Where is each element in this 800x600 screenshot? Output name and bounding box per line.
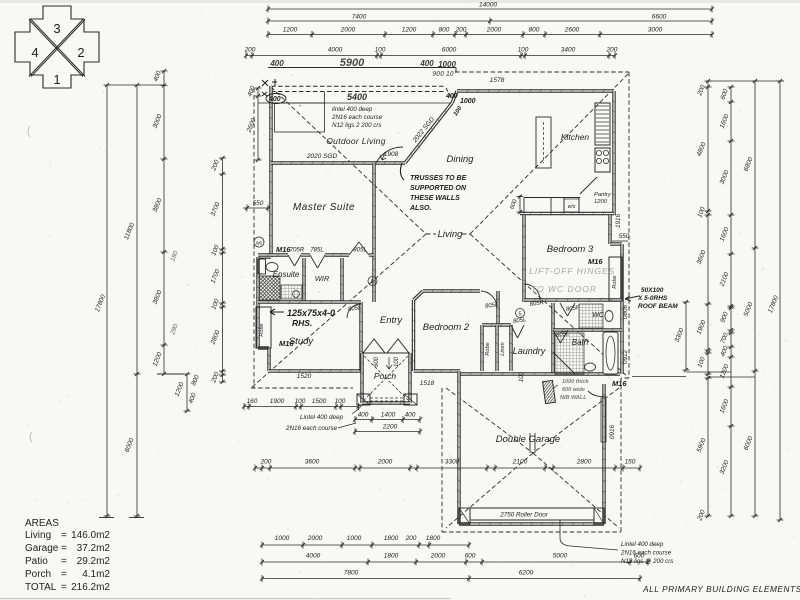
svg-text:2800: 2800 (576, 459, 592, 466)
svg-text:900 10: 900 10 (432, 71, 454, 78)
svg-text:0912: 0912 (622, 350, 629, 365)
svg-text:ALL PRIMARY BUILDING ELEMENTS: ALL PRIMARY BUILDING ELEMENTS (642, 584, 800, 594)
svg-text:50X100: 50X100 (641, 287, 664, 294)
svg-text:Laundry: Laundry (513, 346, 546, 356)
svg-text:TOTAL: TOTAL (25, 582, 57, 593)
svg-text:Robe: Robe (612, 275, 618, 288)
svg-text:14000: 14000 (479, 2, 497, 9)
svg-text:1000: 1000 (460, 98, 476, 105)
svg-text:100: 100 (335, 398, 346, 405)
svg-text:NIB WALL: NIB WALL (560, 395, 587, 401)
svg-text:1518: 1518 (420, 380, 435, 387)
svg-text:400: 400 (358, 412, 369, 419)
svg-text:w/o: w/o (568, 204, 576, 210)
svg-text:N12 ligs @ 200 crs: N12 ligs @ 200 crs (621, 558, 673, 565)
svg-text:Garage: Garage (25, 543, 59, 554)
svg-text:1400: 1400 (381, 412, 396, 419)
svg-text:M16: M16 (612, 379, 627, 388)
svg-text:100: 100 (394, 356, 400, 367)
svg-text:2000: 2000 (307, 535, 323, 542)
svg-text:2N16 each course: 2N16 each course (620, 550, 672, 557)
svg-text:150: 150 (625, 459, 636, 466)
svg-text:200: 200 (260, 459, 272, 466)
svg-text:1578: 1578 (490, 77, 505, 84)
svg-text:2: 2 (77, 45, 84, 60)
svg-text:Ensuite: Ensuite (273, 270, 300, 279)
svg-text:6000: 6000 (442, 47, 457, 54)
svg-text:lintel 400 deep: lintel 400 deep (332, 106, 373, 113)
svg-text:29.2m2: 29.2m2 (77, 556, 111, 567)
svg-text:5: 5 (371, 280, 374, 286)
svg-text:2020 SGD: 2020 SGD (306, 153, 338, 160)
svg-text:216.2m2: 216.2m2 (71, 582, 110, 593)
svg-text:160: 160 (247, 398, 258, 405)
svg-text:3300: 3300 (445, 459, 460, 466)
svg-text:=: = (61, 582, 67, 593)
svg-text:400: 400 (445, 93, 458, 100)
svg-text:2000: 2000 (486, 27, 502, 34)
svg-text:100: 100 (518, 47, 529, 54)
svg-text:805L: 805L (353, 248, 366, 254)
svg-text:0916: 0916 (609, 425, 616, 440)
svg-text:400: 400 (268, 96, 281, 103)
svg-text:200: 200 (405, 535, 417, 542)
svg-text:1800: 1800 (384, 553, 399, 560)
svg-text:Living: Living (438, 229, 464, 240)
svg-text:1908: 1908 (384, 151, 399, 158)
svg-text:400: 400 (405, 412, 416, 419)
svg-text:M16: M16 (276, 245, 291, 254)
svg-text:SUPPORTED ON: SUPPORTED ON (410, 185, 467, 192)
svg-text:Dining: Dining (447, 154, 475, 165)
svg-text:THESE WALLS: THESE WALLS (410, 195, 460, 202)
svg-text:Lintel 400 deep: Lintel 400 deep (300, 414, 344, 421)
svg-text:Bedroom 3: Bedroom 3 (547, 244, 594, 255)
svg-text:Porch: Porch (374, 371, 396, 381)
svg-text:1000: 1000 (347, 535, 362, 542)
svg-text:=: = (61, 556, 67, 567)
svg-text:Bedroom 2: Bedroom 2 (423, 322, 470, 333)
svg-text:3400: 3400 (561, 47, 576, 54)
svg-text:4.1m2: 4.1m2 (82, 569, 110, 580)
svg-text:200: 200 (606, 47, 618, 54)
svg-text:1200: 1200 (594, 199, 608, 205)
svg-text:1200: 1200 (402, 27, 417, 34)
svg-text:1000: 1000 (275, 535, 290, 542)
svg-text:Entry: Entry (380, 315, 403, 326)
svg-text:1800: 1800 (426, 535, 441, 542)
svg-text:2000: 2000 (340, 27, 356, 34)
svg-text:1: 1 (53, 72, 60, 87)
svg-text:100: 100 (375, 47, 386, 54)
svg-text:3: 3 (53, 21, 60, 36)
svg-text:Double Garage: Double Garage (496, 434, 560, 445)
svg-text:6600: 6600 (652, 14, 667, 21)
svg-text:TO WC DOOR: TO WC DOOR (531, 284, 597, 294)
svg-text:2100: 2100 (512, 459, 528, 466)
svg-text:200: 200 (455, 27, 467, 34)
svg-text:Robe: Robe (259, 323, 265, 336)
svg-text:2N16 each course: 2N16 each course (331, 114, 383, 121)
svg-text:1200: 1200 (283, 27, 298, 34)
svg-text:Living: Living (25, 530, 51, 541)
svg-text:ALSO.: ALSO. (409, 205, 431, 212)
svg-text:100: 100 (519, 371, 525, 382)
svg-text:0806: 0806 (622, 305, 629, 320)
svg-text:600: 600 (374, 356, 380, 367)
svg-text:WC: WC (592, 312, 605, 319)
svg-text:600 wide: 600 wide (562, 387, 585, 393)
svg-text:Patio: Patio (25, 556, 48, 567)
svg-text:Robe: Robe (485, 342, 491, 355)
svg-text:125x75x4-0: 125x75x4-0 (287, 308, 335, 318)
svg-text:4: 4 (31, 45, 38, 60)
svg-text:100: 100 (295, 398, 306, 405)
svg-text:Master Suite: Master Suite (293, 202, 355, 213)
svg-text:800: 800 (529, 27, 540, 34)
svg-text:1800: 1800 (384, 535, 399, 542)
svg-text:5: 5 (518, 312, 521, 318)
svg-text:2000: 2000 (377, 459, 393, 466)
svg-text:=: = (61, 543, 67, 554)
svg-text:Outdoor Living: Outdoor Living (326, 136, 385, 146)
svg-text:ws: ws (256, 241, 263, 247)
svg-text:4000: 4000 (328, 47, 343, 54)
svg-text:2000: 2000 (430, 553, 446, 560)
svg-text:1000 thick: 1000 thick (562, 379, 590, 385)
svg-text:2200: 2200 (382, 424, 398, 431)
svg-text:800: 800 (439, 27, 450, 34)
svg-text:2750 Roller Door: 2750 Roller Door (499, 512, 549, 519)
svg-text:6200: 6200 (519, 570, 534, 577)
svg-text:3000: 3000 (648, 27, 663, 34)
svg-text:M16: M16 (279, 339, 294, 348)
svg-text:600: 600 (465, 553, 476, 560)
svg-text:LIFT-OFF HINGES: LIFT-OFF HINGES (529, 266, 615, 276)
svg-text:Lintel 400 deep: Lintel 400 deep (621, 541, 664, 548)
svg-text:RHS.: RHS. (292, 318, 312, 328)
svg-text:400: 400 (419, 59, 434, 68)
svg-text:2600: 2600 (564, 27, 580, 34)
svg-text:2N16 each course: 2N16 each course (285, 425, 338, 432)
svg-text:7400: 7400 (352, 14, 367, 21)
svg-text:Pantry: Pantry (594, 192, 612, 198)
svg-text:1900: 1900 (270, 398, 285, 405)
svg-text:=: = (61, 530, 67, 541)
svg-text:AREAS: AREAS (25, 518, 59, 529)
svg-text:1520: 1520 (297, 373, 312, 380)
svg-text:5400: 5400 (347, 92, 367, 102)
svg-text:3600: 3600 (305, 459, 320, 466)
svg-text:550: 550 (619, 233, 630, 240)
svg-text:Kitchen: Kitchen (561, 132, 590, 142)
svg-text:Linen: Linen (500, 342, 506, 355)
svg-text:1500: 1500 (312, 398, 327, 405)
svg-text:Porch: Porch (25, 569, 51, 580)
svg-text:5000: 5000 (553, 553, 568, 560)
svg-text:Bath: Bath (572, 338, 589, 347)
svg-text:WIR: WIR (315, 274, 330, 283)
svg-text:400: 400 (269, 59, 284, 68)
svg-text:7800: 7800 (344, 570, 359, 577)
svg-text:785L: 785L (310, 248, 323, 254)
svg-text:200: 200 (244, 47, 256, 54)
svg-text:N12 ligs 2 200 crs: N12 ligs 2 200 crs (332, 122, 382, 129)
svg-text:1916: 1916 (615, 214, 622, 229)
svg-text:=: = (61, 569, 67, 580)
svg-text:37.2m2: 37.2m2 (77, 543, 111, 554)
svg-text:4000: 4000 (306, 553, 321, 560)
svg-text:TRUSSES TO BE: TRUSSES TO BE (410, 175, 467, 182)
svg-text:X 5-0RHS: X 5-0RHS (637, 295, 668, 302)
svg-text:ROOF BEAM: ROOF BEAM (638, 303, 678, 310)
svg-text:705R: 705R (290, 248, 305, 254)
svg-text:146.0m2: 146.0m2 (71, 530, 110, 541)
svg-text:M16: M16 (588, 257, 603, 266)
